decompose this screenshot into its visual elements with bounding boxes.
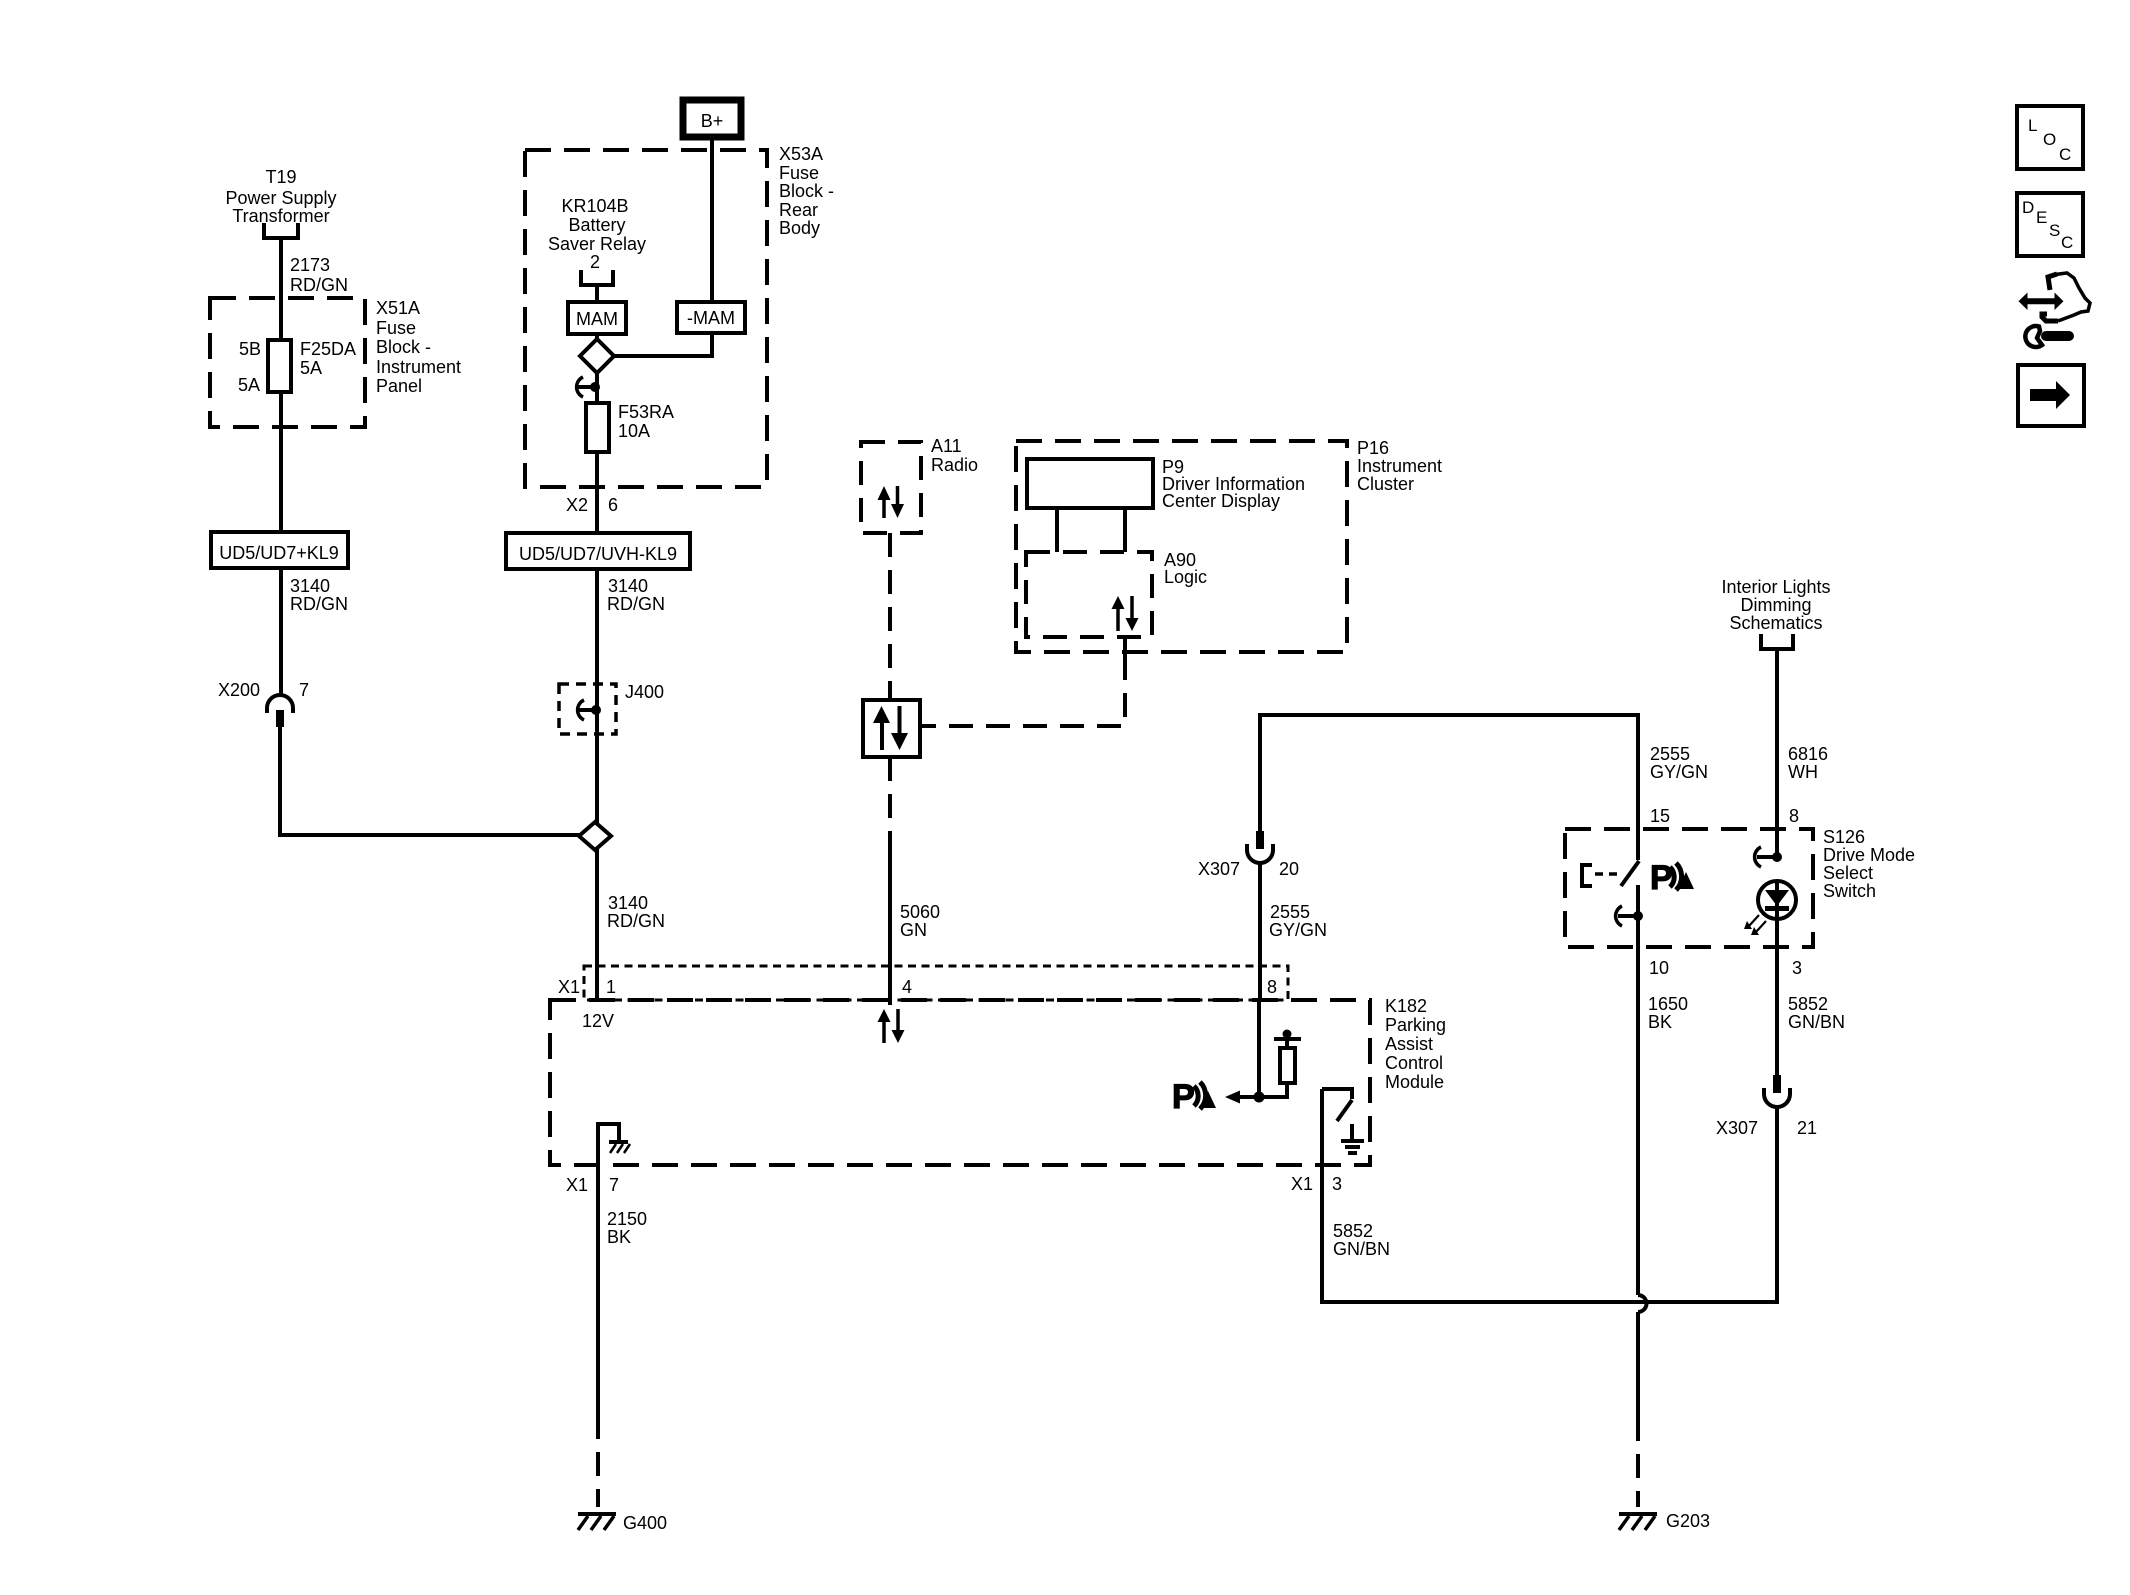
- node UD5/UD7+KL9: [211, 532, 348, 568]
- svg-text:5852: 5852: [1333, 1221, 1373, 1241]
- wire UD5/UD7/UVH-KL9 down to K182 pin 1: [595, 569, 599, 1000]
- svg-text:21: 21: [1797, 1118, 1817, 1138]
- wire gateway box to K182 pin 4: [888, 757, 892, 845]
- svg-text:3: 3: [1332, 1174, 1342, 1194]
- svg-text:3140: 3140: [608, 576, 648, 596]
- serial data arrows in A11: [878, 486, 905, 518]
- connector symbol KR104B relay interface: [581, 270, 613, 285]
- svg-text:P: P: [1650, 859, 1673, 897]
- svg-text:7: 7: [609, 1175, 619, 1195]
- wire arrow to park assist icon: [1240, 1095, 1259, 1099]
- svg-text:BK: BK: [1648, 1012, 1672, 1032]
- chassis ground symbol internal K182: [609, 1142, 630, 1153]
- icon wrench: [2025, 326, 2069, 347]
- label X51A Fuse Block - Instrument Panel: [376, 298, 461, 396]
- pin label X2 6: [566, 495, 618, 515]
- svg-text:3140: 3140: [290, 576, 330, 596]
- svg-text:J400: J400: [625, 682, 664, 702]
- wire 2150 BK to G400: [596, 1165, 600, 1415]
- icon DESC navigation box: [2017, 193, 2083, 256]
- svg-text:Drive Mode: Drive Mode: [1823, 845, 1915, 865]
- wire S126 pin 3 to X307-21: [1775, 919, 1779, 1075]
- svg-text:Logic: Logic: [1164, 567, 1207, 587]
- wire F53RA to UD5/UD7/UVH-KL9: [595, 452, 599, 533]
- label wire 5852 GN/BN lower left: [1333, 1221, 1390, 1259]
- svg-text:5A: 5A: [300, 358, 322, 378]
- wire from X200 to splice: [280, 727, 583, 835]
- svg-text:Block -: Block -: [779, 181, 834, 201]
- instrument cluster P16 dashed box: [1016, 438, 1442, 652]
- terminal symbol S126 left: [1616, 906, 1643, 926]
- wire K182 pin 3 switch leg: [1320, 1089, 1324, 1302]
- svg-text:GN: GN: [900, 920, 927, 940]
- svg-text:X307: X307: [1198, 859, 1240, 879]
- svg-text:1650: 1650: [1648, 994, 1688, 1014]
- ground G203 chassis symbol: [1619, 1511, 1710, 1531]
- svg-text:7: 7: [299, 680, 309, 700]
- svg-text:A11: A11: [931, 436, 962, 456]
- svg-text:15: 15: [1650, 806, 1670, 826]
- svg-text:BK: BK: [607, 1227, 631, 1247]
- fuse F53RA 10A: [586, 403, 609, 452]
- svg-text:Radio: Radio: [931, 455, 978, 475]
- svg-text:X1: X1: [566, 1175, 588, 1195]
- LED indicator in S126: [1744, 881, 1796, 935]
- svg-text:2150: 2150: [607, 1209, 647, 1229]
- wire serial data A11 to gateway box (dashed): [888, 533, 892, 700]
- wire X307-20 to K182 pin 8: [1258, 863, 1262, 1000]
- switch blade S126: [1621, 861, 1639, 886]
- svg-text:6: 6: [608, 495, 618, 515]
- junction J400 dashed box: [559, 682, 664, 734]
- svg-text:X2: X2: [566, 495, 588, 515]
- svg-text:10A: 10A: [618, 421, 650, 441]
- ground symbol IEC in K182: [1341, 1124, 1364, 1153]
- svg-text:8: 8: [1789, 806, 1799, 826]
- svg-text:Control: Control: [1385, 1053, 1443, 1073]
- svg-text:P: P: [1172, 1078, 1195, 1116]
- svg-text:E: E: [2036, 208, 2047, 227]
- connector X307 pin 20: [1198, 831, 1299, 879]
- icon vehicle with arrow: [2019, 273, 2091, 321]
- svg-text:5060: 5060: [900, 902, 940, 922]
- wire hop 1650 BK over 5852: [1638, 1295, 1647, 1312]
- svg-text:2555: 2555: [1650, 744, 1690, 764]
- svg-text:G400: G400: [623, 1513, 667, 1533]
- svg-text:P16: P16: [1357, 438, 1389, 458]
- svg-text:Instrument: Instrument: [376, 357, 461, 377]
- label wire 1650 BK: [1648, 994, 1688, 1032]
- pin label X1 3: [1291, 1174, 1342, 1194]
- pin labels X1 1 4 8: [558, 977, 1277, 997]
- svg-text:X53A: X53A: [779, 144, 823, 164]
- splice diamond main: [579, 822, 611, 850]
- module K182 Parking Assist Control Module dashed box: [550, 996, 1446, 1165]
- svg-text:Module: Module: [1385, 1072, 1444, 1092]
- svg-text:GN/BN: GN/BN: [1788, 1012, 1845, 1032]
- svg-text:2555: 2555: [1270, 902, 1310, 922]
- svg-text:Saver Relay: Saver Relay: [548, 234, 646, 254]
- label wire 5852 GN/BN right: [1788, 994, 1845, 1032]
- label wire 2150 BK: [607, 1209, 647, 1247]
- label wire 3140 RD/GN left: [290, 576, 348, 614]
- serial data arrows in A90: [1112, 596, 1139, 631]
- wire P9 legs to A90: [1057, 508, 1125, 552]
- node -MAM: [677, 302, 745, 333]
- svg-text:O: O: [2043, 130, 2056, 149]
- svg-text:Fuse: Fuse: [376, 318, 416, 338]
- wire relay stem to MAM: [595, 285, 599, 302]
- node UD5/UD7/UVH-KL9: [506, 533, 690, 569]
- fuse F25DA 5A: [268, 340, 291, 392]
- label wire 3140 RD/GN lower: [607, 893, 665, 931]
- relay KR104B Battery Saver Relay label: [548, 196, 646, 272]
- svg-text:12V: 12V: [582, 1011, 614, 1031]
- svg-text:RD/GN: RD/GN: [607, 594, 665, 614]
- svg-text:X1: X1: [558, 977, 580, 997]
- svg-text:8: 8: [1267, 977, 1277, 997]
- svg-text:GY/GN: GY/GN: [1650, 762, 1708, 782]
- label wire 5060 GN: [900, 902, 940, 940]
- wire 5852 GN/BN return path: [1322, 1107, 1777, 1302]
- svg-text:C: C: [2059, 145, 2071, 164]
- svg-text:S: S: [2049, 221, 2060, 240]
- svg-text:RD/GN: RD/GN: [290, 594, 348, 614]
- svg-text:UD5/UD7/UVH-KL9: UD5/UD7/UVH-KL9: [519, 544, 677, 564]
- svg-text:T19: T19: [265, 167, 296, 187]
- svg-text:Rear: Rear: [779, 200, 818, 220]
- ground G400 chassis symbol: [578, 1513, 667, 1533]
- svg-text:MAM: MAM: [576, 309, 618, 329]
- svg-text:2: 2: [590, 252, 600, 272]
- svg-text:Assist: Assist: [1385, 1034, 1433, 1054]
- fuse block X53A dashed box: [525, 150, 767, 487]
- svg-text:2173: 2173: [290, 255, 330, 275]
- wire 2173 RD/GN from T19 to X200: [279, 238, 283, 695]
- pin labels 15 and 8: [1650, 806, 1799, 826]
- svg-text:KR104B: KR104B: [561, 196, 628, 216]
- svg-text:RD/GN: RD/GN: [290, 275, 348, 295]
- wire gateway box to instrument cluster (dashed): [920, 656, 1125, 726]
- svg-text:F25DA: F25DA: [300, 339, 356, 359]
- wire splice to -MAM: [614, 333, 712, 356]
- pin labels 10 and 3: [1649, 958, 1802, 978]
- svg-text:L: L: [2028, 116, 2037, 135]
- icon LOC navigation box: [2017, 106, 2083, 169]
- power feed B+: [683, 100, 741, 137]
- node junction dot K182: [1254, 1092, 1265, 1103]
- svg-text:5852: 5852: [1788, 994, 1828, 1014]
- svg-text:Interior Lights: Interior Lights: [1721, 577, 1830, 597]
- svg-text:Power Supply: Power Supply: [225, 188, 336, 208]
- svg-text:Parking: Parking: [1385, 1015, 1446, 1035]
- wire B+ to -MAM: [710, 137, 714, 302]
- svg-text:Block -: Block -: [376, 337, 431, 357]
- wire K182 pin 8 internal to junction: [1257, 1000, 1261, 1097]
- svg-text:X307: X307: [1716, 1118, 1758, 1138]
- svg-text:3140: 3140: [608, 893, 648, 913]
- svg-text:5A: 5A: [238, 375, 260, 395]
- svg-text:S126: S126: [1823, 827, 1865, 847]
- svg-text:Transformer: Transformer: [232, 206, 329, 226]
- label wire 2173 RD/GN: [290, 255, 348, 295]
- svg-text:GY/GN: GY/GN: [1269, 920, 1327, 940]
- svg-text:K182: K182: [1385, 996, 1427, 1016]
- svg-text:X200: X200: [218, 680, 260, 700]
- svg-text:Body: Body: [779, 218, 820, 238]
- label wire 2555 GY/GN right: [1650, 744, 1708, 782]
- svg-text:B+: B+: [701, 111, 724, 131]
- node MAM: [568, 302, 626, 334]
- icon forward arrow box: [2018, 365, 2084, 426]
- serial data gateway box: [863, 700, 920, 757]
- svg-text:RD/GN: RD/GN: [607, 911, 665, 931]
- svg-text:C: C: [2061, 233, 2073, 252]
- pin label X1 7: [566, 1175, 619, 1195]
- splice diamond in X53A: [580, 339, 614, 373]
- label wire 2555 GY/GN below connector: [1269, 902, 1327, 940]
- wire K182 pin 7 internal ground stub: [598, 1124, 619, 1165]
- wire bridge 2555 GY/GN top: [1260, 715, 1638, 860]
- svg-text:-MAM: -MAM: [687, 308, 735, 328]
- svg-text:X51A: X51A: [376, 298, 420, 318]
- switch to ground in K182: [1322, 1089, 1352, 1121]
- logic A90 dashed box: [1026, 550, 1207, 637]
- connector X1 dotted strip of K182: [584, 966, 1288, 1000]
- serial data arrows in gateway box: [873, 706, 908, 750]
- connector X307 pin 21: [1716, 1075, 1817, 1138]
- radio A11 dashed box: [861, 436, 978, 533]
- switch S126 Drive Mode Select Switch dashed box: [1565, 827, 1915, 947]
- svg-text:G203: G203: [1666, 1511, 1710, 1531]
- component T19 Power Supply Transformer label: [225, 167, 336, 226]
- svg-text:Fuse: Fuse: [779, 163, 819, 183]
- svg-text:1: 1: [606, 977, 616, 997]
- svg-text:X1: X1: [1291, 1174, 1313, 1194]
- junction J400 terminal symbol: [578, 700, 601, 720]
- svg-text:4: 4: [902, 977, 912, 997]
- display P9 Driver Information Center Display: [1027, 457, 1305, 511]
- wire S126 left leg to pin 10: [1636, 885, 1640, 1295]
- wire 6816 WH to S126 pin 8: [1775, 649, 1779, 857]
- connector X200 pin 7: [218, 680, 309, 727]
- connector symbol T19 harness interface: [264, 223, 298, 238]
- mechanical link bracket E in S126: [1582, 865, 1620, 886]
- svg-text:Instrument: Instrument: [1357, 456, 1442, 476]
- svg-text:D: D: [2022, 198, 2034, 217]
- wire A90 exit stub: [1123, 637, 1127, 658]
- label wire 3140 RD/GN center upper: [607, 576, 665, 614]
- svg-text:Switch: Switch: [1823, 881, 1876, 901]
- svg-text:Center Display: Center Display: [1162, 491, 1280, 511]
- label fuse F25DA pins and rating: [238, 339, 356, 395]
- svg-text:Select: Select: [1823, 863, 1873, 883]
- resistor in K182: [1259, 1030, 1301, 1098]
- svg-text:Panel: Panel: [376, 376, 422, 396]
- svg-text:10: 10: [1649, 958, 1669, 978]
- label Interior Lights Dimming Schematics: [1721, 577, 1830, 633]
- svg-text:5B: 5B: [239, 339, 261, 359]
- svg-text:Battery: Battery: [568, 215, 625, 235]
- svg-text:GN/BN: GN/BN: [1333, 1239, 1390, 1259]
- label X53A Fuse Block - Rear Body: [779, 144, 834, 238]
- svg-text:3: 3: [1792, 958, 1802, 978]
- svg-text:Cluster: Cluster: [1357, 474, 1414, 494]
- fuse block X51A dashed box: [210, 298, 365, 427]
- wire diamond to fuse F53RA: [595, 373, 599, 403]
- svg-text:Dimming: Dimming: [1740, 595, 1811, 615]
- svg-text:WH: WH: [1788, 762, 1818, 782]
- svg-text:6816: 6816: [1788, 744, 1828, 764]
- icon park assist P in S126: [1650, 859, 1694, 897]
- svg-text:Schematics: Schematics: [1729, 613, 1822, 633]
- svg-text:20: 20: [1279, 859, 1299, 879]
- terminal symbol S126 right: [1755, 847, 1782, 867]
- relay contact symbol: [577, 377, 600, 397]
- connector symbol interior lights interface: [1761, 634, 1793, 649]
- svg-text:F53RA: F53RA: [618, 402, 674, 422]
- label wire 6816 WH: [1788, 744, 1828, 782]
- icon park assist P in K182: [1172, 1078, 1216, 1116]
- wire 1650 BK to G203: [1636, 1312, 1640, 1417]
- wire MAM to splice diamond: [595, 334, 599, 340]
- svg-text:UD5/UD7+KL9: UD5/UD7+KL9: [219, 543, 339, 563]
- serial data arrows at K182 pin 4: [878, 1009, 905, 1043]
